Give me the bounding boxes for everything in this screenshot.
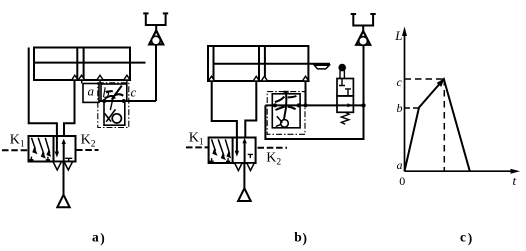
svg-text:b: b	[102, 86, 109, 102]
svg-text:0: 0	[399, 174, 405, 188]
svg-text:a: a	[397, 158, 403, 172]
svg-text:): )	[468, 230, 473, 245]
svg-text:c: c	[397, 75, 403, 89]
svg-text:): )	[303, 231, 308, 246]
svg-text:): )	[100, 231, 105, 246]
svg-text:a: a	[92, 230, 99, 245]
svg-text:b: b	[294, 230, 302, 245]
svg-text:c: c	[131, 85, 137, 100]
svg-text:c: c	[460, 229, 466, 244]
svg-text:a: a	[88, 84, 95, 99]
svg-text:b: b	[397, 101, 403, 115]
svg-text:t: t	[513, 173, 517, 188]
svg-text:L: L	[394, 28, 402, 43]
